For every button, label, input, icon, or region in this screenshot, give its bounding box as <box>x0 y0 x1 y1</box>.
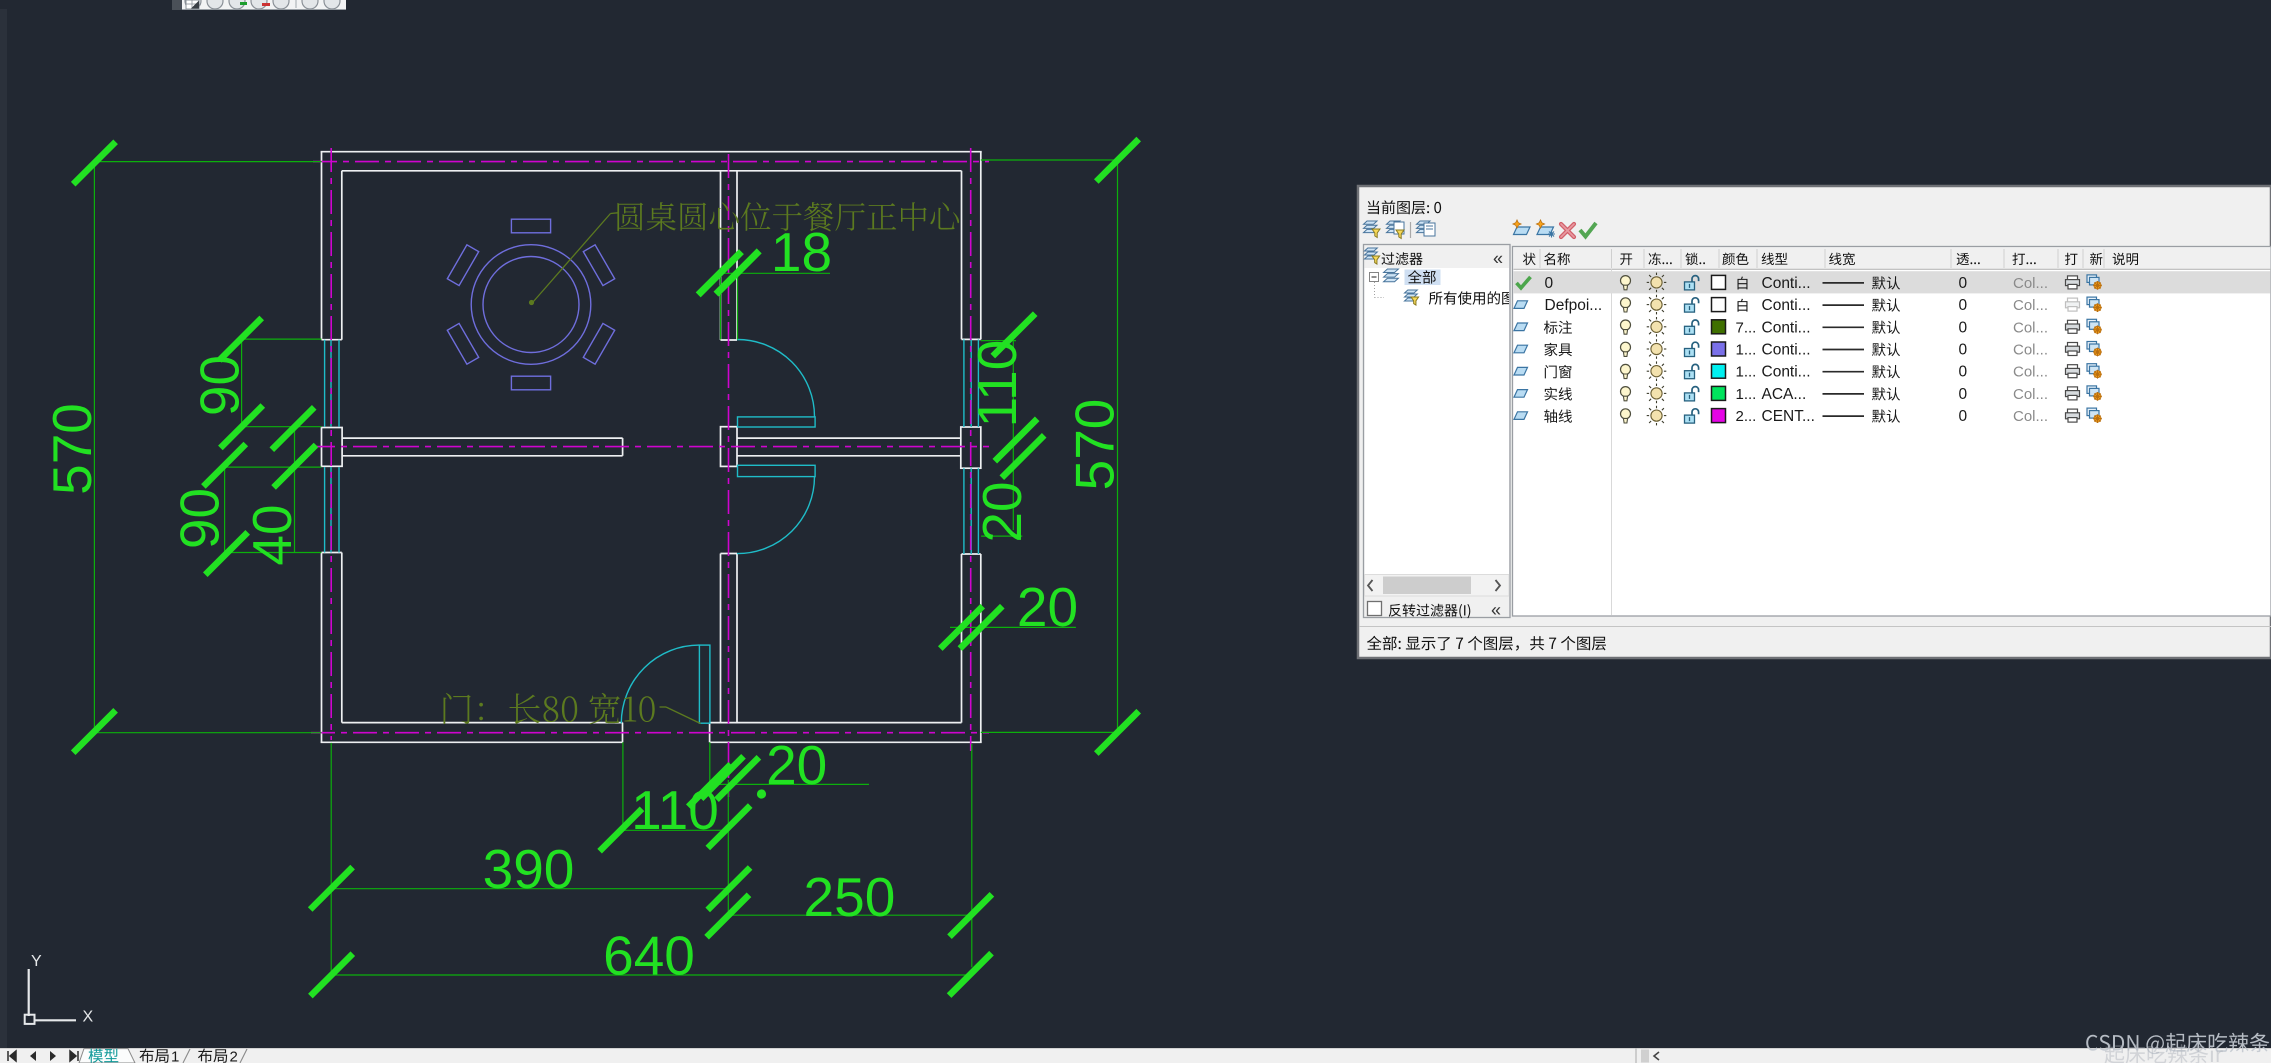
过滤器 header <box>1382 252 1423 265</box>
label: door note <box>444 693 655 724</box>
dialog title 当前图层 <box>1368 200 1441 214</box>
tab 布局1 <box>140 1049 169 1063</box>
svg-text:110: 110 <box>631 779 719 841</box>
dialog status line <box>1359 626 2271 628</box>
svg-text:18: 18 <box>771 221 832 283</box>
dimension tick marks <box>73 142 115 184</box>
tab separators <box>183 1049 190 1063</box>
filter panel <box>1364 245 1511 618</box>
interior horizontal wall <box>342 437 622 439</box>
svg-text:0: 0 <box>1959 364 1968 381</box>
upper door leaf <box>738 417 816 427</box>
svg-text:7...: 7... <box>1736 319 1757 336</box>
svg-text:2...: 2... <box>1736 408 1757 425</box>
bottom door leaf <box>699 645 710 723</box>
svg-text:Conti...: Conti... <box>1762 342 1811 359</box>
door label leader <box>660 706 667 708</box>
svg-text:20: 20 <box>971 481 1033 542</box>
axis lines (magenta dash-dot) <box>313 161 989 163</box>
svg-text:Col...: Col... <box>2013 342 2048 359</box>
svg-text:250: 250 <box>804 866 896 928</box>
svg-text:Col...: Col... <box>2013 319 2048 336</box>
svg-text:Defpoi...: Defpoi... <box>1545 297 1603 314</box>
svg-text:Col...: Col... <box>2013 364 2048 381</box>
svg-text:90: 90 <box>169 488 231 549</box>
bottom door arc <box>621 645 699 723</box>
watermark CSDN <box>2086 1033 2271 1054</box>
svg-text:Col...: Col... <box>2013 297 2048 314</box>
svg-text:570: 570 <box>41 403 103 495</box>
svg-text:0: 0 <box>1959 386 1968 403</box>
svg-text:0: 0 <box>1959 342 1968 359</box>
table leader <box>533 214 611 303</box>
toolbar: set current icon (green check) <box>1580 223 1596 237</box>
svg-text:40: 40 <box>241 504 303 565</box>
tree item 全部 <box>1370 273 1379 282</box>
upper door arc <box>737 339 815 416</box>
svg-text:Col...: Col... <box>2013 275 2048 292</box>
panel h-scrollbar <box>1365 575 1510 597</box>
layer row 标注 <box>1514 323 1528 331</box>
invert filter checkbox <box>1368 602 1382 616</box>
svg-text:Y: Y <box>31 953 42 970</box>
svg-text:1...: 1... <box>1736 342 1757 359</box>
toolbar: new group filter icon <box>1387 221 1401 224</box>
svg-text:Col...: Col... <box>2013 408 2048 425</box>
toolbar: new layer VP freeze icon <box>1537 227 1554 235</box>
svg-text:570: 570 <box>1064 399 1126 491</box>
svg-text:640: 640 <box>603 925 695 987</box>
svg-text:Conti...: Conti... <box>1762 364 1811 381</box>
svg-text:1...: 1... <box>1736 386 1757 403</box>
svg-text:X: X <box>83 1009 94 1026</box>
svg-text:0: 0 <box>1959 275 1968 292</box>
toolbar: delete icon (red X) <box>1561 224 1574 237</box>
layer properties dialog <box>1358 186 2271 658</box>
svg-text:390: 390 <box>483 838 575 900</box>
svg-text:0: 0 <box>1545 275 1554 292</box>
layer row 实线 <box>1514 390 1528 398</box>
layer row 0 <box>1517 277 1531 288</box>
svg-text:ACA...: ACA... <box>1762 386 1807 403</box>
svg-text:«: « <box>1491 600 1501 620</box>
layer row 轴线 <box>1514 412 1528 420</box>
layer row 门窗 <box>1514 367 1528 375</box>
svg-text:20: 20 <box>766 734 827 796</box>
svg-text:Col...: Col... <box>2013 386 2048 403</box>
svg-text:1...: 1... <box>1736 364 1757 381</box>
layer row Defpoints <box>1514 301 1528 309</box>
svg-text:Conti...: Conti... <box>1762 275 1811 292</box>
layer row 家具 <box>1514 345 1528 353</box>
svg-text:1: 1 <box>171 1049 179 1063</box>
svg-text:0: 0 <box>1959 319 1968 336</box>
outer walls <box>321 151 982 153</box>
UCS icon <box>28 969 30 1016</box>
svg-text:Conti...: Conti... <box>1762 319 1811 336</box>
lower door leaf <box>738 465 816 476</box>
windows <box>324 340 326 427</box>
lower door arc <box>737 477 815 554</box>
toolbar: layer states manager icon <box>1417 221 1431 224</box>
left window edge strip <box>0 9 7 1049</box>
tab 模型 <box>89 1049 119 1063</box>
svg-text:Conti...: Conti... <box>1762 297 1811 314</box>
top toolbar fragment <box>172 0 182 10</box>
dimension texts <box>41 403 103 495</box>
svg-text:0: 0 <box>1959 408 1968 425</box>
svg-text:20: 20 <box>1017 576 1078 638</box>
svg-text:CENT...: CENT... <box>1762 408 1815 425</box>
round table <box>471 245 591 365</box>
tree item 所有使用的图层 <box>1374 282 1376 298</box>
svg-text:90: 90 <box>189 355 251 416</box>
table headers <box>1523 253 1536 266</box>
bottom tab bar <box>0 1048 2271 1063</box>
svg-text:«: « <box>1493 249 1503 269</box>
svg-text:110: 110 <box>966 340 1028 428</box>
toolbar: filter properties icon <box>1364 221 1378 224</box>
svg-text:0: 0 <box>1959 297 1968 314</box>
chairs <box>511 219 550 233</box>
layer table <box>1513 247 2271 617</box>
svg-text:2: 2 <box>230 1049 238 1063</box>
interior vertical wall <box>720 171 722 340</box>
tab 布局2 <box>198 1049 227 1063</box>
toolbar: new layer icon <box>1514 227 1531 235</box>
dimension extension lines <box>94 161 321 163</box>
label: table note <box>617 202 959 231</box>
